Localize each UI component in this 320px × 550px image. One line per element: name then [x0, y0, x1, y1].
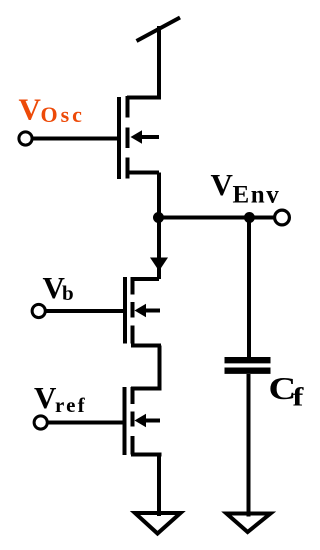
- transistor M1 (NMOS, gate VOsc): [119, 96, 159, 179]
- svg-text:V: V: [34, 380, 57, 415]
- terminal VOsc: [19, 132, 32, 145]
- svg-text:Osc: Osc: [41, 102, 85, 127]
- wire: M3 source down to ground: [157, 455, 161, 517]
- wire: VOsc terminal to M1 gate: [32, 137, 117, 141]
- svg-text:Env: Env: [233, 182, 281, 209]
- capacitor Cf: [225, 360, 271, 371]
- svg-text:f: f: [293, 383, 305, 411]
- wire with current arrow: node VEnv down to M2 drain: [150, 218, 168, 280]
- wire: node VEnv to output terminal: [159, 216, 282, 220]
- supply rail slash: [137, 18, 181, 42]
- transistor M2 (NMOS, gate Vb): [125, 277, 161, 346]
- wire: supply slash down to M1 drain: [127, 26, 159, 98]
- junction dot at capacitor branch: [244, 212, 255, 223]
- svg-text:V: V: [19, 92, 42, 127]
- terminal Vb: [32, 304, 45, 317]
- svg-text:V: V: [211, 167, 234, 202]
- terminal Vref: [34, 416, 47, 429]
- ground symbol (below Cf): [227, 514, 271, 533]
- terminal VEnv: [275, 210, 290, 225]
- wire: M2 drain corner: [131, 277, 159, 281]
- wire: M1 source down to node VEnv: [157, 173, 161, 218]
- wire: Vb terminal to M2 gate: [45, 309, 123, 313]
- wire: node VEnv branch down to capacitor Cf: [247, 218, 251, 358]
- wire: capacitor Cf down to ground: [247, 374, 251, 517]
- node VEnv junction dot: [153, 212, 164, 223]
- transistor M3 (NMOS, gate Vref): [125, 387, 162, 455]
- ground symbol (below M3): [135, 513, 181, 534]
- svg-text:ref: ref: [55, 393, 87, 417]
- svg-text:b: b: [62, 281, 74, 305]
- wire: M2 source down to M3 drain: [131, 346, 160, 389]
- wire: Vref terminal to M3 gate: [47, 421, 123, 425]
